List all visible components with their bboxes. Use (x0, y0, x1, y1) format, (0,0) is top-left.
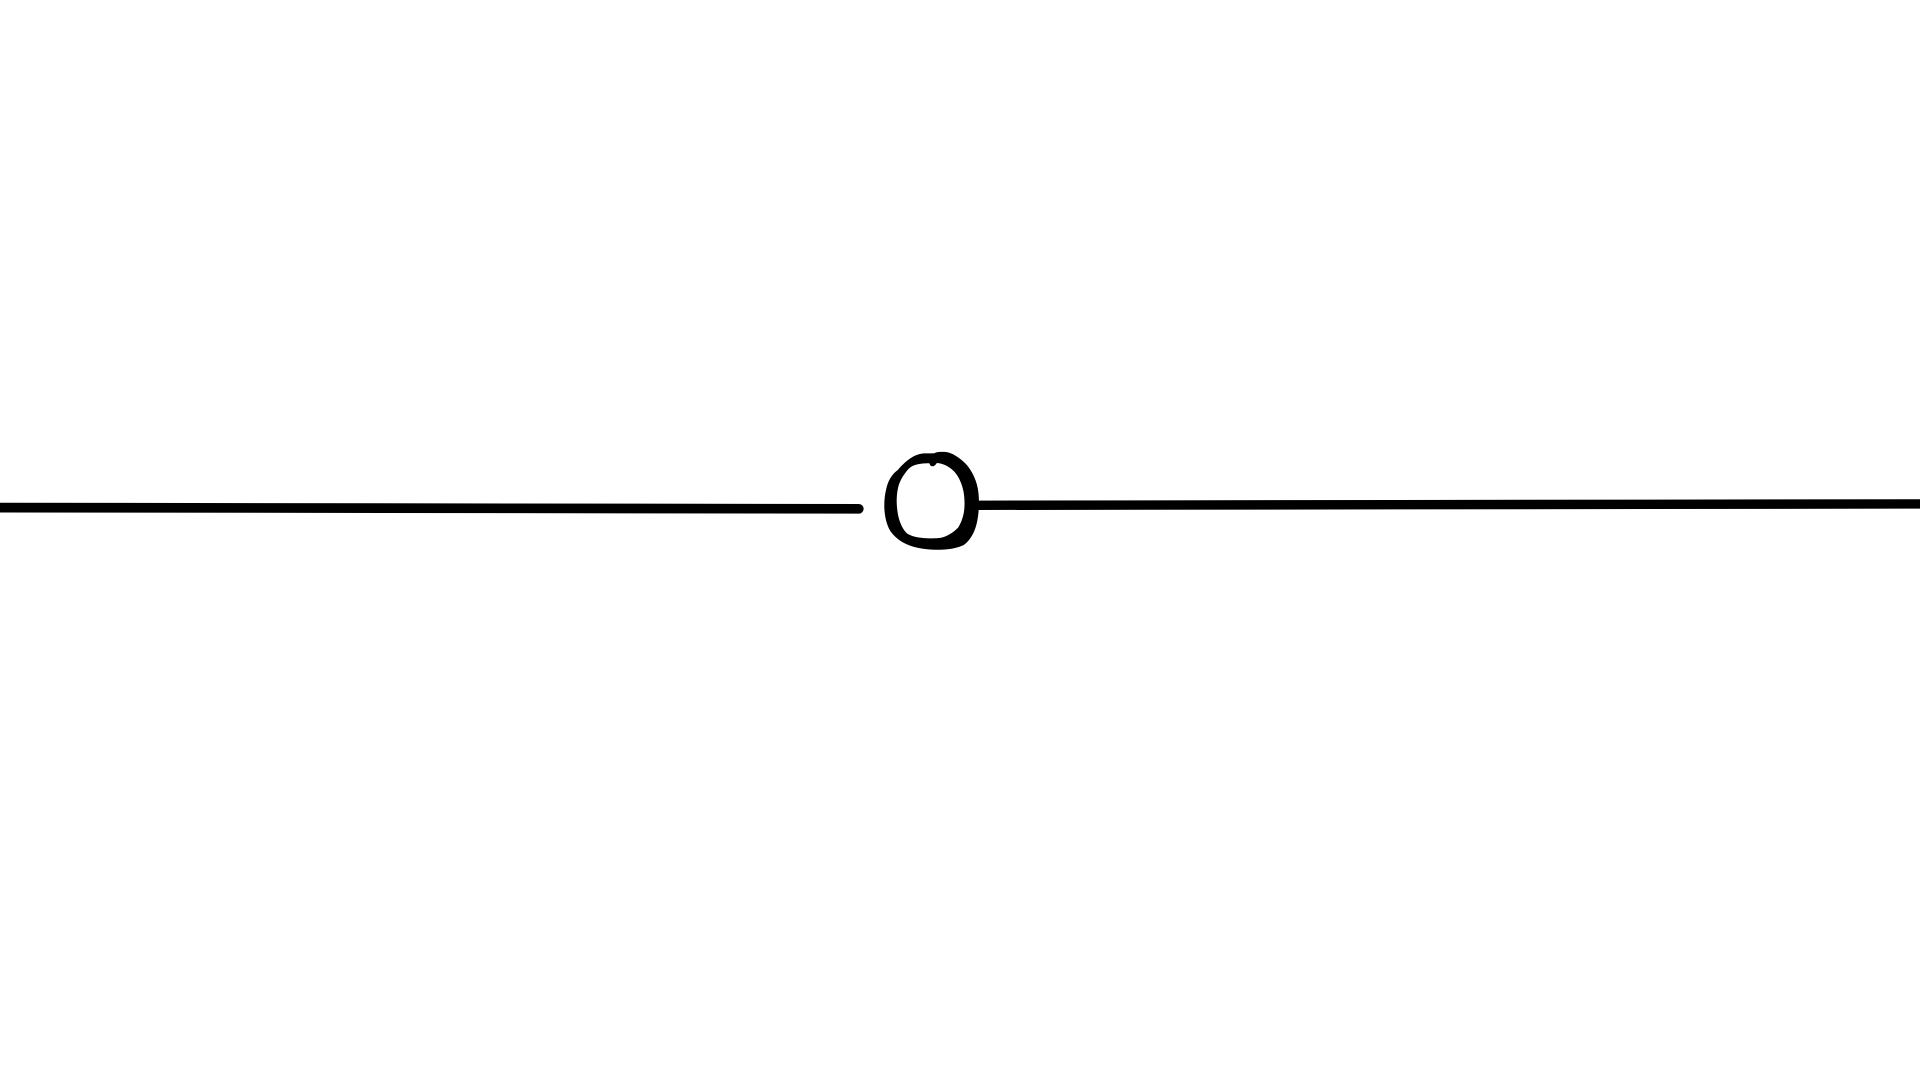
wire (0, 507, 859, 508)
wire (974, 504, 1920, 505)
node (open-circle terminal) (884, 452, 979, 550)
